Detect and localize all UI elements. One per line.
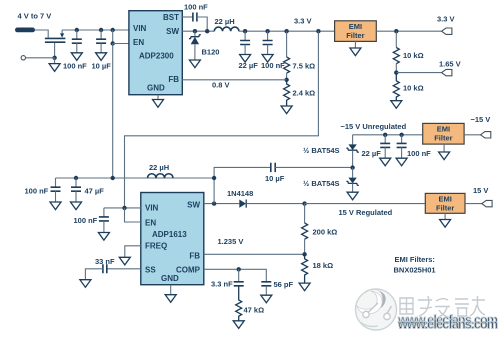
svg-text:47 µF: 47 µF	[85, 187, 105, 196]
svg-text:10 µF: 10 µF	[92, 61, 112, 70]
wire SW U2	[204, 203, 240, 205]
capacitor 100 nF boost in	[51, 187, 61, 202]
node pump junction	[350, 165, 354, 169]
connector 3.3 V output	[442, 28, 452, 34]
op-amp U1 ADP2300 block	[129, 11, 182, 95]
ground 22uF -15V	[380, 158, 391, 166]
ground 22uF	[240, 55, 251, 63]
terminal circle EN input	[21, 56, 25, 60]
node VIN/EN junction	[122, 206, 126, 210]
node SW boost	[212, 201, 216, 205]
wire SW out	[182, 30, 214, 32]
svg-text:VIN: VIN	[145, 204, 159, 213]
svg-text:22 µF: 22 µF	[362, 149, 382, 158]
wire EN tap down	[112, 30, 114, 44]
transistor Q1 (PMOS reverse protection)	[45, 30, 66, 42]
node 22uF tap	[243, 29, 247, 33]
ground EMI1	[354, 41, 356, 48]
resistor 10 kOhm top	[393, 31, 399, 72]
svg-text:10 µF: 10 µF	[265, 174, 285, 183]
svg-text:22 µF: 22 µF	[239, 61, 259, 70]
resistor 2.4 kOhm	[284, 80, 290, 106]
wire 1.65V out	[396, 72, 441, 74]
wire pump cap to diodes	[275, 166, 352, 168]
svg-text:1.65 V: 1.65 V	[439, 59, 461, 68]
watermark logo	[356, 289, 397, 331]
svg-text:www.elecfans.com: www.elecfans.com	[397, 318, 498, 332]
svg-text:Filter: Filter	[346, 31, 364, 40]
ground gate	[54, 58, 56, 64]
ground U2	[170, 285, 172, 295]
wire VIN U2	[104, 207, 141, 209]
ground EMI2	[443, 144, 445, 152]
svg-text:½ BAT54S: ½ BAT54S	[303, 146, 340, 155]
svg-text:100 nF: 100 nF	[25, 187, 49, 196]
inductor L1 22uH	[214, 27, 239, 31]
wire SW up to pump	[214, 167, 271, 203]
ground U1	[157, 95, 159, 100]
wire FREQ	[125, 246, 141, 257]
wire boost input line	[56, 178, 215, 187]
ground 100nF boost	[50, 202, 61, 210]
svg-text:100 nF: 100 nF	[407, 149, 431, 158]
svg-text:−15 V Unregulated: −15 V Unregulated	[341, 122, 407, 131]
connector 15 V output	[482, 200, 492, 206]
svg-text:SW: SW	[166, 27, 179, 36]
svg-text:100 nF: 100 nF	[184, 2, 208, 11]
node SW BST	[205, 29, 209, 33]
svg-text:EN: EN	[145, 218, 156, 227]
diode D2 half BAT54S bottom	[346, 168, 358, 193]
watermark glyphs	[400, 296, 485, 318]
wire COMP U2	[204, 269, 266, 282]
node 47uF tap	[74, 176, 78, 180]
svg-text:VIN: VIN	[133, 24, 147, 33]
node FB boost junction	[302, 252, 306, 256]
node 7.5k tap	[284, 29, 288, 33]
wire FB U2	[204, 253, 305, 255]
wire Q1 drain to rail	[62, 29, 129, 31]
EMI filter 2 (-15V)	[423, 123, 464, 144]
svg-text:200 kΩ: 200 kΩ	[313, 227, 338, 236]
svg-text:10 kΩ: 10 kΩ	[403, 51, 424, 60]
wire EMI2 out	[464, 134, 480, 136]
svg-text:ADP1613: ADP1613	[152, 230, 187, 239]
wire SS cap to ground	[85, 269, 103, 280]
wire EMI3 out	[465, 203, 482, 205]
svg-text:10 kΩ: 10 kΩ	[403, 83, 424, 92]
resistor 10 kOhm bottom	[393, 73, 399, 101]
node COMP 3.3nF	[237, 267, 241, 271]
wire Q1 gate	[54, 43, 56, 58]
ground 47uF boost	[71, 202, 82, 210]
svg-text:56 pF: 56 pF	[274, 280, 294, 289]
ground 2.4k	[281, 106, 292, 114]
wire 15V line	[305, 203, 426, 205]
svg-text:7.5 kΩ: 7.5 kΩ	[293, 62, 316, 71]
node rail 100nF tap	[75, 28, 79, 32]
svg-text:33 nF: 33 nF	[95, 257, 115, 266]
svg-text:3.3 V: 3.3 V	[437, 15, 455, 24]
capacitor 100 nF 3.3V	[263, 31, 273, 54]
svg-text:EMI: EMI	[349, 22, 362, 31]
capacitor 10 uF pump	[271, 163, 275, 172]
ground divider	[391, 101, 402, 109]
EMI filter 3 (15V)	[425, 193, 465, 213]
capacitor 56 pF COMP	[261, 282, 271, 295]
wire L1 to rail 3.3V	[239, 30, 335, 32]
capacitor 3.3 nF COMP	[234, 269, 244, 286]
wire EN U2	[125, 208, 141, 222]
svg-text:15 V: 15 V	[473, 186, 488, 195]
ground 47k	[233, 321, 244, 329]
node EN junction	[111, 41, 115, 45]
node -15V 100nF tap	[399, 133, 403, 137]
inductor L2 22uH	[148, 174, 174, 178]
svg-text:22 µH: 22 µH	[149, 163, 169, 172]
svg-text:0.8 V: 0.8 V	[212, 81, 230, 90]
wire 3.3V down to boost EN link	[125, 31, 319, 208]
wire BST	[182, 16, 193, 18]
svg-text:1.235 V: 1.235 V	[218, 237, 244, 246]
svg-text:ADP2300: ADP2300	[139, 51, 174, 60]
ground 56pF	[261, 295, 272, 303]
svg-text:18 kΩ: 18 kΩ	[313, 261, 334, 270]
svg-text:SW: SW	[187, 200, 200, 209]
ground BAT54S	[347, 192, 358, 200]
svg-text:Filter: Filter	[436, 203, 454, 212]
node rail EN tap	[111, 28, 115, 32]
svg-text:Filter: Filter	[434, 134, 452, 143]
capacitor 100 nF -15V	[397, 135, 407, 158]
node 4V rail to inductor	[111, 176, 115, 180]
node 1.65V tap	[394, 70, 398, 74]
ground SS	[80, 280, 91, 288]
svg-text:GND: GND	[147, 83, 165, 92]
node gate junction	[52, 56, 56, 60]
diode 1N4148	[239, 200, 304, 208]
ground 100nF input	[71, 53, 82, 61]
ground 18k	[299, 283, 310, 291]
EMI filter 1 (3.3V)	[335, 21, 377, 42]
ground 100nF 3.3V	[262, 55, 273, 63]
svg-text:SS: SS	[145, 265, 156, 274]
wire 4V rail down to boost inductor	[112, 44, 114, 179]
wire input bar to Q1 source	[35, 30, 48, 38]
capacitor 22 uF -15V	[380, 135, 390, 158]
svg-text:EN: EN	[133, 38, 144, 47]
wire terminal to gate node	[26, 57, 55, 59]
node 3.3V divider top	[394, 29, 398, 33]
capacitor 33 nF SS	[103, 264, 107, 273]
svg-text:−15 V: −15 V	[471, 115, 491, 124]
input terminal bar	[15, 28, 35, 33]
svg-text:100 nF: 100 nF	[261, 61, 285, 70]
wire SS	[107, 268, 141, 270]
node 3.3V vertical tap	[316, 29, 320, 33]
connector 1.65 V output	[442, 69, 452, 75]
svg-text:2.4 kΩ: 2.4 kΩ	[293, 89, 316, 98]
svg-text:1N4148: 1N4148	[227, 189, 253, 198]
resistor 200 kOhm	[302, 204, 308, 255]
ground EMI3	[444, 213, 446, 219]
svg-text:15 V Regulated: 15 V Regulated	[339, 208, 393, 217]
node 15V 200k tap	[302, 201, 306, 205]
svg-text:100 nF: 100 nF	[63, 61, 87, 70]
node SW B120	[193, 29, 197, 33]
wire FB	[182, 79, 286, 81]
diode B120 (schottky)	[189, 31, 201, 60]
watermark url	[397, 313, 498, 332]
svg-text:100 nF: 100 nF	[74, 216, 98, 225]
wire BST cap to SW	[197, 17, 207, 31]
node inductor to SW	[212, 176, 216, 180]
IC U2 ADP1613 block	[141, 193, 204, 285]
svg-text:BST: BST	[163, 13, 179, 22]
wire EMI1 out	[376, 30, 441, 32]
svg-text:EMI: EMI	[437, 125, 450, 134]
svg-text:BNX025H01: BNX025H01	[394, 265, 436, 274]
svg-text:FREQ: FREQ	[145, 241, 167, 250]
diode D1 half BAT54S top	[346, 135, 358, 168]
svg-text:FB: FB	[168, 75, 179, 84]
resistor 18 kOhm	[302, 254, 308, 283]
svg-text:EMI Filters:: EMI Filters:	[395, 255, 435, 264]
svg-text:½ BAT54S: ½ BAT54S	[303, 179, 340, 188]
svg-text:3.3 nF: 3.3 nF	[211, 280, 233, 289]
resistor 47 kOhm	[236, 286, 242, 321]
svg-text:3.3 V: 3.3 V	[294, 16, 312, 25]
capacitor 100 nF U2 VIN	[99, 208, 109, 233]
resistor 7.5 kOhm	[284, 31, 290, 80]
node -15V 22uF tap	[383, 133, 387, 137]
svg-text:47 kΩ: 47 kΩ	[244, 305, 265, 314]
svg-text:4 V to 7 V: 4 V to 7 V	[18, 12, 52, 21]
svg-text:22 µH: 22 µH	[215, 17, 235, 26]
capacitor 100 nF input	[72, 30, 82, 53]
ground 100nF U2	[98, 233, 109, 241]
capacitor 47 uF boost	[71, 178, 81, 202]
svg-text:FB: FB	[189, 252, 200, 261]
node rail 10uF tap	[99, 28, 103, 32]
node FB junction	[284, 78, 288, 82]
connector -15 V output	[481, 132, 491, 138]
capacitor 100 nF BST	[193, 13, 197, 22]
svg-text:COMP: COMP	[176, 265, 201, 274]
svg-text:GND: GND	[161, 274, 179, 283]
ground B120	[189, 60, 200, 68]
ground FREQ	[119, 257, 130, 265]
node 100nF tap 3.3V	[265, 29, 269, 33]
capacitor 22 uF output	[240, 31, 250, 54]
wire -15V unregulated line	[353, 134, 423, 136]
ground 100nF -15V	[396, 158, 407, 166]
wire EN to ADP2300	[113, 43, 129, 45]
svg-text:EMI: EMI	[439, 194, 452, 203]
svg-text:B120: B120	[202, 48, 220, 57]
ground 10uF input	[96, 53, 107, 61]
capacitor 10 uF input	[96, 30, 106, 53]
